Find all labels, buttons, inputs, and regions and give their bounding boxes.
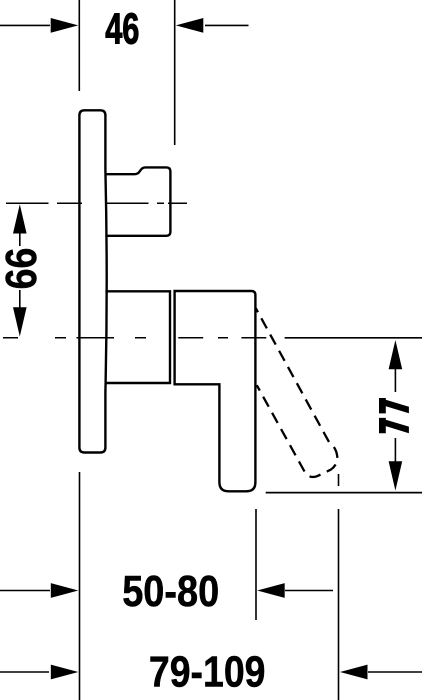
centerline knob axis <box>6 202 187 204</box>
diverter knob (top handle, side view) <box>105 167 170 235</box>
dimension line 50-80 left piece <box>0 590 50 592</box>
extension line bottom middle (lever right edge) <box>255 509 257 620</box>
arrow 77 down <box>389 461 403 490</box>
dimension 77: vertical line pieces <box>394 368 396 392</box>
reference line 77 top (valve axis extension) <box>285 337 422 339</box>
dimension line 46 left piece <box>0 24 50 26</box>
dimension line 50-80 right piece <box>285 590 333 592</box>
svg-text:66: 66 <box>0 248 46 290</box>
dimension line 79-109 right piece <box>368 671 422 673</box>
label 77 (rotated) <box>379 398 409 433</box>
extension line right of 46 <box>174 0 176 145</box>
extension line bottom right (dashed lever tip) <box>338 474 340 486</box>
arrow 77 up <box>389 340 403 369</box>
lever hub + lever handle (solid, pointing down) <box>175 291 256 491</box>
svg-text:46: 46 <box>105 4 139 52</box>
arrow 46 left <box>51 18 78 33</box>
svg-text:50-80: 50-80 <box>122 567 219 616</box>
plate (wall escutcheon, side view) <box>79 110 106 452</box>
dimension line 79-109 left piece <box>0 671 49 673</box>
arrow 66 up <box>13 204 27 233</box>
arrow 46 right <box>176 18 204 33</box>
extension line left of 46 / plate left <box>78 0 80 91</box>
sleeve between plate and lever hub <box>105 291 170 383</box>
dimension 66: vertical line pieces <box>19 232 21 246</box>
extension line bottom left (plate left) <box>79 472 81 700</box>
arrow 50-80 right <box>257 583 285 598</box>
svg-text:79-109: 79-109 <box>149 647 266 696</box>
reference line 77 bottom (lever tip level) <box>266 492 422 494</box>
centerline valve axis <box>3 337 266 339</box>
arrow 66 down <box>13 307 27 336</box>
arrow 50-80 left <box>51 583 79 598</box>
dashed lever (alternate position, rotated ~30deg) <box>256 308 338 477</box>
arrow 79-109 right <box>340 665 368 680</box>
arrow 79-109 left <box>51 665 79 680</box>
dimension line 46 right piece <box>205 24 249 26</box>
